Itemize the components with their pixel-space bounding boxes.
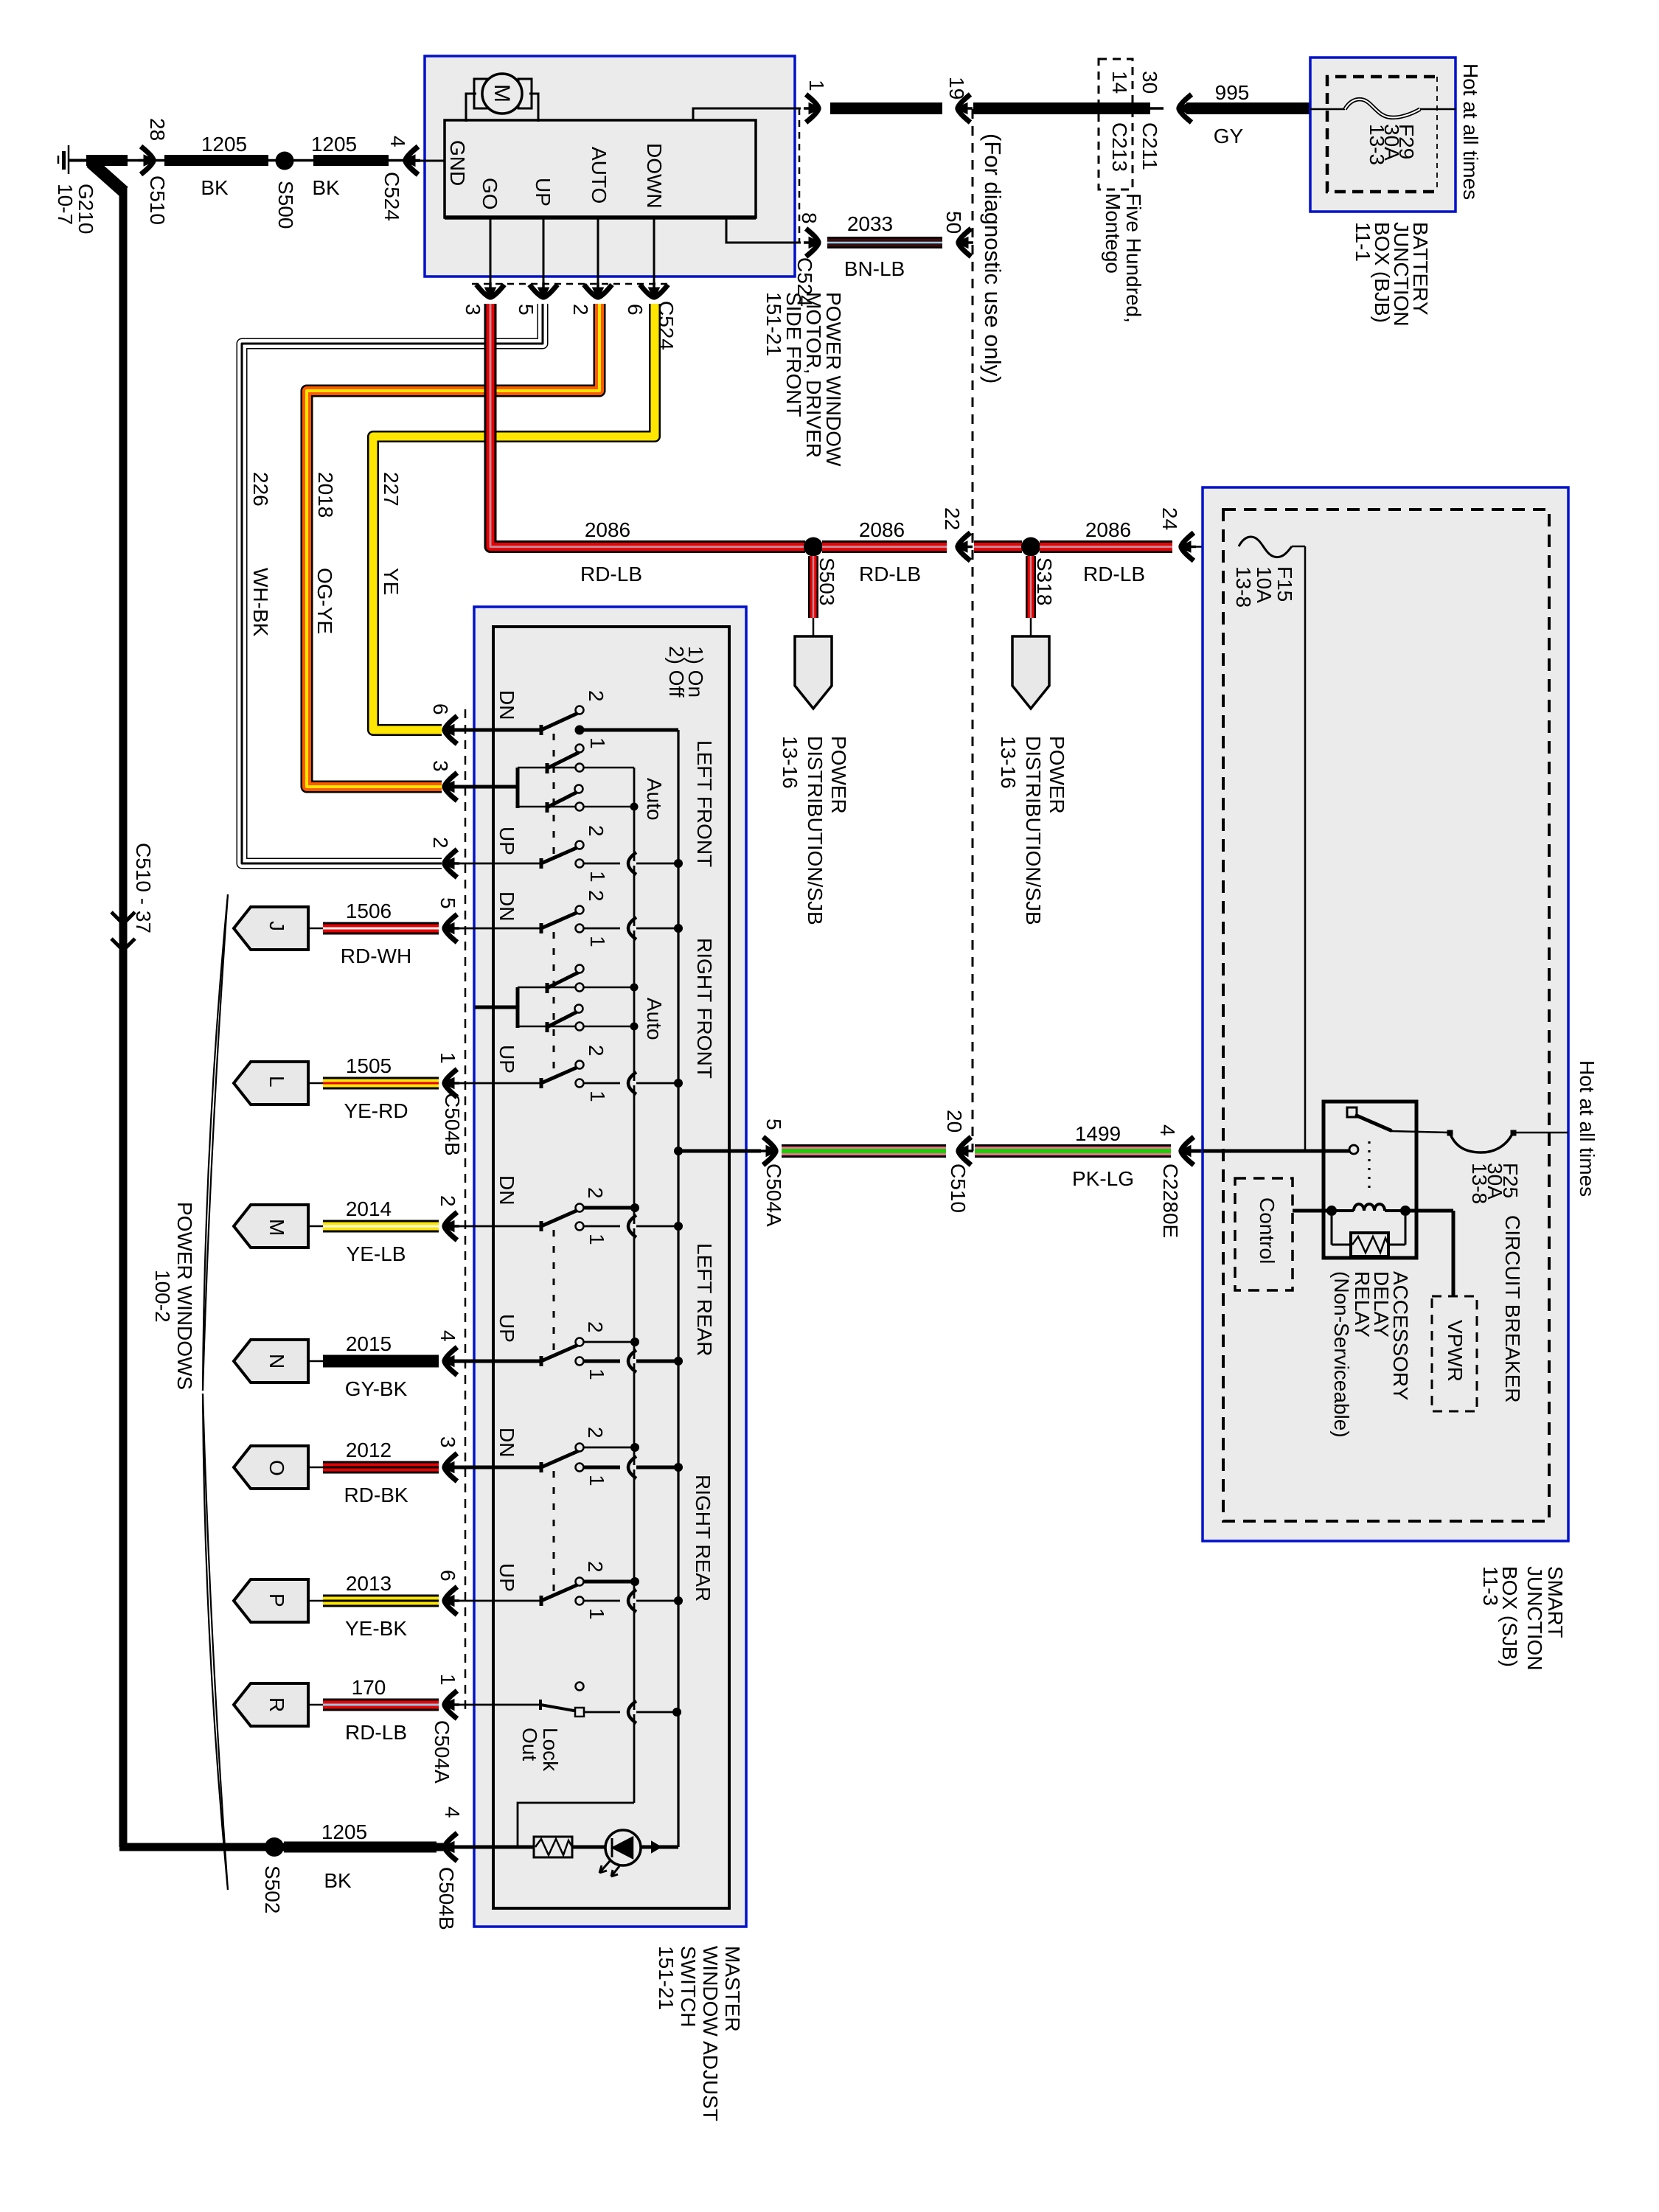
svg-text:C504A: C504A: [762, 1164, 785, 1227]
svg-text:20: 20: [943, 1110, 966, 1133]
svg-text:POWER: POWER: [827, 736, 850, 814]
svg-text:O: O: [265, 1460, 288, 1476]
wire 1499 PK-LG seg2: [975, 1144, 1171, 1158]
svg-text:30: 30: [1138, 71, 1161, 94]
connector C510 pin 20 arrow: [959, 1137, 971, 1165]
svg-text:2: 2: [584, 1427, 607, 1439]
connector C510 pin 28 arrow: [141, 147, 153, 175]
svg-text:GND: GND: [446, 140, 469, 186]
control box: [1235, 1178, 1293, 1290]
svg-text:UP: UP: [495, 1045, 518, 1074]
svg-text:50: 50: [942, 211, 965, 234]
power windows brace: [203, 894, 228, 1391]
svg-text:1: 1: [586, 871, 609, 883]
svg-text:C510 - 37: C510 - 37: [132, 843, 155, 933]
connector arrow 995: [1179, 94, 1192, 122]
connector C510 pin 19 arrow: [958, 94, 970, 122]
svg-text:1: 1: [586, 1091, 609, 1102]
svg-text:151-21: 151-21: [762, 292, 785, 356]
svg-text:BK: BK: [324, 1869, 352, 1892]
svg-text:G210: G210: [74, 184, 97, 234]
fuse F29 element: [1310, 108, 1345, 111]
svg-text:2086: 2086: [585, 518, 630, 541]
svg-text:DN: DN: [495, 891, 518, 921]
svg-text:3: 3: [429, 760, 452, 772]
svg-text:OG-YE: OG-YE: [313, 568, 336, 634]
svg-text:1: 1: [585, 1368, 608, 1380]
svg-text:10A: 10A: [1253, 566, 1276, 603]
wire pin1 to C510: [830, 102, 942, 114]
svg-text:(For diagnostic use only): (For diagnostic use only): [980, 133, 1006, 383]
fuse F29 box: [1327, 77, 1435, 192]
dashed diagnostic line: [972, 109, 974, 1151]
svg-text:SWITCH: SWITCH: [677, 1946, 700, 2027]
svg-text:RD-LB: RD-LB: [1083, 563, 1145, 585]
svg-text:VPWR: VPWR: [1444, 1320, 1467, 1382]
svg-text:YE-LB: YE-LB: [347, 1242, 406, 1265]
svg-text:2: 2: [585, 825, 608, 837]
connector pin 50 arrow: [959, 229, 971, 257]
svg-text:6: 6: [437, 1570, 459, 1582]
connector J: [234, 907, 308, 950]
svg-text:YE: YE: [380, 568, 403, 595]
wire 1499 run from master switch: [674, 1147, 683, 1155]
svg-text:Control: Control: [1256, 1197, 1279, 1264]
svg-text:2: 2: [584, 1321, 607, 1333]
svg-text:2013: 2013: [346, 1572, 392, 1595]
wire 2033 BN-LB: [827, 237, 942, 248]
svg-text:2: 2: [569, 304, 592, 316]
svg-text:DN: DN: [495, 1427, 518, 1457]
svg-text:1: 1: [586, 737, 609, 749]
svg-text:C213: C213: [1108, 122, 1131, 172]
svg-text:RD-LB: RD-LB: [580, 563, 642, 585]
svg-text:2: 2: [584, 1187, 607, 1199]
svg-text:M: M: [490, 84, 514, 102]
svg-text:2: 2: [584, 1561, 607, 1573]
svg-text:5: 5: [437, 897, 459, 909]
svg-text:RIGHT REAR: RIGHT REAR: [692, 1475, 714, 1601]
svg-text:1506: 1506: [346, 900, 392, 922]
svg-text:BN-LB: BN-LB: [844, 257, 905, 280]
connector N: [234, 1340, 308, 1382]
svg-text:13-16: 13-16: [997, 736, 1020, 789]
svg-text:226: 226: [249, 472, 272, 507]
svg-text:AUTO: AUTO: [588, 147, 611, 204]
splice S500: [276, 152, 294, 170]
wire 226 WH-BK: [242, 304, 543, 863]
vertical bus line: [677, 730, 679, 1847]
connector C2280E pin 4 arrow: [1181, 1137, 1194, 1165]
wire 2086 seg3: [974, 540, 1022, 553]
svg-text:1: 1: [805, 80, 828, 91]
connector C524 dashed: [472, 283, 671, 285]
wire trunk to G210: [91, 162, 124, 192]
svg-text:11-1: 11-1: [1352, 222, 1374, 262]
svg-text:PK-LG: PK-LG: [1072, 1167, 1134, 1190]
svg-text:J: J: [265, 921, 288, 931]
master pin 5 DN switch right front: [453, 928, 541, 930]
splice S502: [265, 1837, 284, 1857]
svg-text:RD-BK: RD-BK: [344, 1484, 408, 1506]
connector O: [234, 1446, 308, 1489]
illumination lamp LED: [572, 1846, 605, 1849]
master lock out switch: [453, 1704, 540, 1706]
connector C504B pin 4 arrow: [445, 1833, 457, 1861]
connector C524 dashed line right: [799, 108, 801, 243]
svg-text:Five Hundred,: Five Hundred,: [1122, 193, 1145, 323]
connector R: [234, 1683, 308, 1726]
svg-text:1: 1: [437, 1674, 459, 1686]
svg-text:2012: 2012: [346, 1439, 392, 1461]
svg-text:LEFT REAR: LEFT REAR: [693, 1243, 716, 1357]
wire to C211: [973, 102, 1150, 114]
motor pin 1 wire: [693, 108, 801, 120]
svg-text:2: 2: [585, 690, 608, 702]
svg-text:P: P: [265, 1593, 288, 1607]
svg-text:2: 2: [585, 1045, 608, 1057]
wire F15 to relay: [1304, 546, 1307, 1150]
switch linkage dashes rear: [553, 1230, 555, 1357]
svg-text:GY: GY: [1214, 125, 1244, 147]
svg-text:C524: C524: [380, 172, 403, 221]
svg-text:13-8: 13-8: [1468, 1163, 1491, 1204]
svg-text:C510: C510: [947, 1164, 970, 1213]
svg-text:GY-BK: GY-BK: [345, 1377, 408, 1400]
svg-text:3: 3: [437, 1436, 459, 1448]
illumination resistor: [453, 1846, 534, 1849]
svg-text:1505: 1505: [346, 1054, 392, 1077]
svg-text:DOWN: DOWN: [643, 143, 666, 209]
svg-text:Auto: Auto: [643, 998, 666, 1040]
fuse F15: [1239, 537, 1292, 557]
motor M1: [474, 79, 487, 108]
connector M: [234, 1205, 308, 1248]
svg-text:13-16: 13-16: [779, 736, 801, 789]
svg-text:1499: 1499: [1075, 1122, 1121, 1145]
svg-text:LEFT FRONT: LEFT FRONT: [693, 740, 716, 867]
svg-text:2) Off: 2) Off: [665, 646, 688, 698]
svg-text:C2280E: C2280E: [1159, 1164, 1182, 1238]
svg-text:Hot at all times: Hot at all times: [1459, 63, 1482, 200]
wire 1205 BK ground run: [69, 159, 404, 162]
motor pin 8 wire: [726, 218, 801, 243]
smart junction box SJB: [1203, 487, 1568, 1541]
svg-text:S502: S502: [261, 1865, 284, 1913]
svg-text:UP: UP: [495, 827, 518, 855]
svg-text:1: 1: [585, 1234, 608, 1245]
svg-text:C504B: C504B: [435, 1867, 458, 1930]
svg-text:2: 2: [429, 837, 452, 849]
svg-text:MASTER: MASTER: [721, 1946, 744, 2032]
svg-text:1: 1: [585, 1608, 608, 1620]
master UP switch left rear: [453, 1360, 541, 1363]
svg-text:11-3: 11-3: [1479, 1566, 1502, 1606]
svg-text:Montego: Montego: [1102, 193, 1124, 274]
relay coil: [1293, 1209, 1332, 1213]
master UP switch right rear: [453, 1600, 541, 1602]
motor pin wires to C524: [490, 218, 492, 296]
connector C504 dashed line: [465, 709, 467, 1709]
vertical auto/lockout line: [633, 768, 636, 1803]
accessory delay relay box: [1324, 1102, 1416, 1258]
svg-text:Lock: Lock: [539, 1728, 562, 1772]
svg-text:8: 8: [798, 212, 821, 224]
svg-text:RD-LB: RD-LB: [859, 563, 921, 585]
svg-text:2033: 2033: [847, 212, 893, 235]
svg-text:151-21: 151-21: [655, 1946, 678, 2010]
svg-text:UP: UP: [495, 1314, 518, 1343]
battery junction box BJB: [1310, 58, 1455, 212]
svg-text:2086: 2086: [859, 518, 905, 541]
svg-text:F15: F15: [1273, 566, 1296, 602]
wire 1499 inside SJB to relay: [1203, 1150, 1349, 1153]
svg-text:4: 4: [386, 136, 409, 147]
svg-text:1: 1: [437, 1052, 459, 1064]
svg-text:S500: S500: [274, 181, 297, 229]
svg-text:4: 4: [1156, 1124, 1179, 1136]
svg-text:S503: S503: [815, 557, 838, 605]
svg-text:14: 14: [1108, 71, 1131, 94]
svg-text:YE-BK: YE-BK: [345, 1617, 407, 1640]
svg-text:5: 5: [762, 1119, 785, 1130]
master DN switch left rear: [453, 1225, 541, 1228]
svg-text:2: 2: [585, 890, 608, 902]
svg-text:1205: 1205: [321, 1820, 367, 1843]
switch linkage dashes front: [553, 734, 555, 860]
svg-text:10-7: 10-7: [54, 184, 77, 225]
circuit breaker F25: [1450, 1133, 1513, 1152]
power window motor driver front box: [425, 56, 795, 276]
svg-text:1205: 1205: [201, 133, 247, 156]
svg-text:POWER: POWER: [1046, 736, 1068, 814]
svg-text:13-3: 13-3: [1366, 124, 1388, 165]
svg-text:WINDOW ADJUST: WINDOW ADJUST: [699, 1946, 722, 2121]
wire 227 YE: [373, 304, 655, 730]
svg-text:POWER WINDOWS: POWER WINDOWS: [173, 1202, 196, 1390]
svg-text:DISTRIBUTION/SJB: DISTRIBUTION/SJB: [1022, 736, 1045, 925]
S503 lead to power distribution: [808, 556, 818, 618]
ground G210: [68, 145, 70, 174]
VPWR wire: [1452, 1211, 1455, 1296]
svg-text:YE-RD: YE-RD: [344, 1099, 408, 1122]
wire 2086 RD-LB from motor pin 3: [490, 304, 805, 547]
svg-text:22: 22: [941, 507, 964, 530]
connector C2280 pin 24 arrow: [1181, 533, 1194, 561]
splice S318: [1021, 538, 1040, 557]
svg-text:RD-LB: RD-LB: [345, 1721, 407, 1744]
svg-text:2086: 2086: [1085, 518, 1131, 541]
svg-text:100-2: 100-2: [151, 1270, 174, 1323]
wire 1205 BK bottom: [119, 1843, 443, 1851]
svg-text:C504A: C504A: [431, 1720, 453, 1784]
svg-text:BK: BK: [312, 176, 340, 199]
connector C510 pin 22 arrow: [958, 533, 970, 561]
svg-text:GO: GO: [479, 178, 501, 210]
wire 2018 OG-YE: [307, 304, 599, 787]
svg-text:2018: 2018: [314, 472, 337, 518]
svg-text:4: 4: [437, 1330, 459, 1342]
svg-text:995: 995: [1215, 81, 1250, 104]
svg-text:2015: 2015: [346, 1332, 392, 1355]
svg-text:170: 170: [352, 1676, 386, 1699]
svg-text:C211: C211: [1138, 122, 1161, 170]
svg-text:S318: S318: [1033, 557, 1056, 605]
svg-text:2: 2: [437, 1195, 459, 1207]
off-page arrow S503 power distribution: [795, 636, 832, 709]
relay switch: [1347, 1107, 1357, 1117]
svg-text:3: 3: [462, 304, 484, 316]
connector C211/C213 box: [1099, 59, 1133, 189]
connector C510-37 break: [111, 912, 135, 924]
svg-text:UP: UP: [532, 178, 554, 206]
splice S503: [804, 538, 823, 557]
master auto switch right front: [475, 1006, 518, 1009]
svg-text:SMART: SMART: [1544, 1566, 1567, 1638]
svg-text:R: R: [265, 1697, 288, 1712]
wire 2086 seg4: [1040, 540, 1172, 553]
connector L: [234, 1062, 308, 1105]
svg-text:Hot at all times: Hot at all times: [1576, 1060, 1599, 1197]
wire 2086 seg2: [822, 540, 947, 553]
master window adjust switch box: [474, 607, 746, 1927]
svg-text:28: 28: [146, 118, 169, 141]
svg-text:(Non-Serviceable): (Non-Serviceable): [1330, 1271, 1353, 1438]
S318 lead to power distribution: [1026, 556, 1036, 618]
svg-text:4: 4: [441, 1806, 464, 1818]
relay resistor: [1331, 1216, 1333, 1245]
svg-text:UP: UP: [495, 1563, 518, 1592]
master pin 1 UP switch right front: [453, 1082, 541, 1085]
svg-text:C504B: C504B: [441, 1093, 464, 1156]
connector P: [234, 1579, 308, 1622]
svg-text:2014: 2014: [346, 1197, 392, 1220]
svg-text:DN: DN: [495, 690, 518, 720]
svg-text:DN: DN: [495, 1175, 518, 1205]
svg-text:1: 1: [585, 1475, 608, 1486]
svg-text:M: M: [265, 1219, 288, 1236]
wire 1499 PK-LG seg1: [782, 1144, 946, 1158]
svg-text:Auto: Auto: [643, 778, 666, 821]
svg-text:RIGHT FRONT: RIGHT FRONT: [693, 938, 716, 1079]
master DN switch right rear: [453, 1466, 541, 1470]
svg-text:JUNCTION: JUNCTION: [1523, 1566, 1546, 1671]
svg-text:N: N: [265, 1354, 288, 1368]
svg-text:C524: C524: [793, 257, 816, 307]
svg-text:24: 24: [1158, 507, 1181, 530]
svg-text:Out: Out: [518, 1728, 541, 1761]
svg-text:DISTRIBUTION/SJB: DISTRIBUTION/SJB: [804, 736, 827, 925]
svg-text:RELAY: RELAY: [1351, 1271, 1374, 1338]
svg-text:13-8: 13-8: [1232, 566, 1255, 608]
svg-text:L: L: [265, 1076, 288, 1088]
svg-text:RD-WH: RD-WH: [341, 945, 411, 967]
motor connector block: [445, 120, 756, 218]
svg-text:227: 227: [380, 472, 403, 507]
off-page arrow S318 power distribution: [1012, 636, 1049, 709]
svg-text:6: 6: [624, 304, 647, 316]
svg-text:BK: BK: [201, 176, 229, 199]
VPWR box: [1432, 1296, 1477, 1411]
svg-text:CIRCUIT BREAKER: CIRCUIT BREAKER: [1501, 1215, 1524, 1403]
svg-text:C510: C510: [146, 175, 169, 225]
svg-text:1: 1: [586, 936, 609, 947]
svg-text:5: 5: [515, 304, 538, 316]
svg-text:WH-BK: WH-BK: [249, 568, 272, 637]
wire 995 GY: [1186, 102, 1310, 114]
svg-text:6: 6: [429, 703, 452, 715]
svg-text:1205: 1205: [311, 133, 357, 156]
